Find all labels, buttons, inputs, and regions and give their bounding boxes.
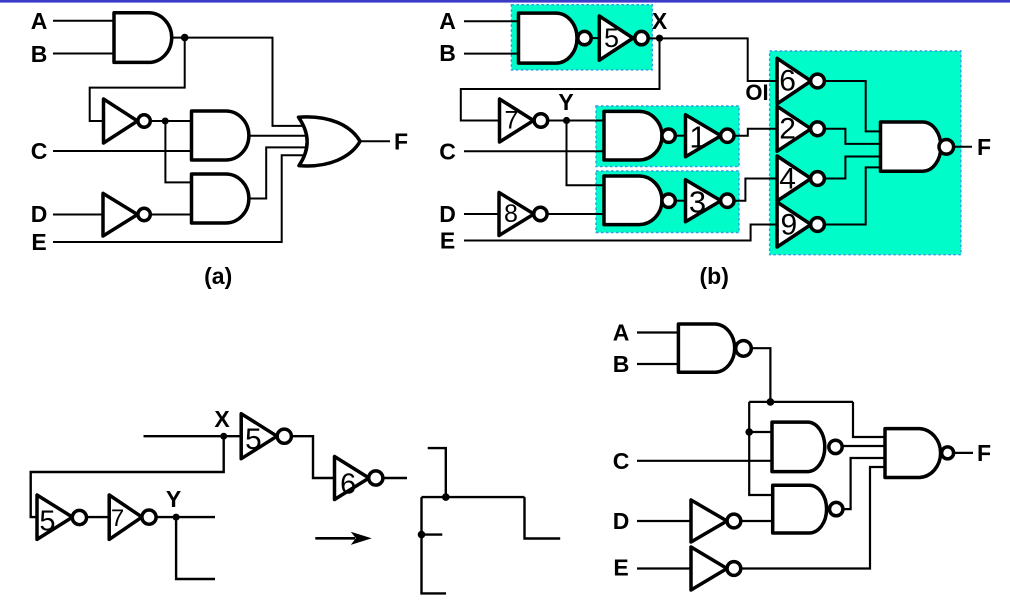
inverter 8 (b) [499, 193, 534, 236]
node X junction (b) [656, 35, 663, 42]
bubble inverter 5 [635, 31, 648, 44]
wire inverter IE output to NAND H4 [741, 467, 885, 569]
arrow transform [315, 533, 370, 544]
inverter 4 (b) [777, 156, 811, 201]
inverter ID (c) [691, 500, 727, 542]
wire inverter 6 output to NAND G10 [824, 81, 881, 131]
svg-text:6: 6 [340, 469, 356, 501]
bubble inverter 9 [811, 218, 825, 232]
svg-text:6: 6 [779, 65, 796, 98]
node junction left (mini) [418, 531, 426, 539]
svg-text:B: B [613, 351, 630, 377]
svg-text:A: A [613, 320, 630, 346]
wire X down to inverter 7 input [461, 38, 660, 120]
bubble inverter IE [727, 562, 741, 576]
bubble inverter 7b [142, 510, 156, 524]
wire input E (c) [637, 567, 691, 569]
svg-text:C: C [613, 448, 630, 474]
svg-text:8: 8 [504, 200, 518, 228]
svg-text:A: A [31, 8, 48, 34]
NAND gate H2 (c) [772, 422, 825, 472]
NAND gate H4 (c output) [885, 429, 941, 478]
svg-text:3: 3 [689, 185, 706, 220]
bubble inverter 3 [721, 194, 734, 207]
bubble inverter 4 [811, 172, 825, 186]
wire bus right vertical to NAND H4 [853, 402, 885, 437]
svg-text:4: 4 [779, 162, 796, 195]
wire X stub to inverter 5a [144, 435, 242, 437]
node inverter U2 output junction [162, 118, 169, 125]
svg-text:Y: Y [558, 89, 573, 115]
wire inverter 2 output to NAND G10 [824, 129, 881, 144]
wire inverter U2 output to AND2 [151, 120, 191, 122]
AND gate U1 (a) [114, 13, 172, 63]
inverter 7 (b) [500, 99, 534, 142]
OR gate U6 (a) [299, 117, 361, 166]
wire input A (a) [53, 20, 114, 22]
wire input D (c) [637, 520, 691, 522]
bubble inverter ID [727, 514, 741, 528]
inverter 5b [37, 495, 73, 539]
wire top stub [428, 448, 446, 497]
wire bus horizontal (c) [749, 401, 853, 403]
svg-text:(a): (a) [204, 263, 232, 289]
bubble inverter U5 [138, 208, 150, 220]
wire node1 down to inverter U2 input [90, 38, 185, 121]
svg-text:D: D [613, 508, 630, 534]
node bus junction left (c) [745, 428, 753, 436]
top border line [0, 0, 1010, 3]
wire OR output F (a) [360, 140, 390, 142]
wire inverter 4 output to NAND G10 [824, 157, 881, 179]
NAND gate G1 (b inputs Y,C) [604, 111, 662, 160]
inverter 1 (b) [686, 115, 721, 157]
wire middle stub [422, 533, 443, 535]
wire inverter 7b output to Y [156, 516, 215, 518]
NAND gate G10 (b output) [881, 122, 941, 171]
bubble inverter 2 [811, 122, 825, 136]
bubble NAND H3 [830, 502, 843, 515]
bubble NAND H1 [736, 341, 752, 357]
wire node2 down to AND3 input [165, 121, 191, 182]
wire inverter 1 output to inverter 2 input [734, 129, 777, 136]
bubble inverter 6b [369, 471, 383, 485]
wire input C (b) [464, 150, 604, 152]
wire bus left vertical to NAND H3 [749, 402, 773, 495]
inverter U2 (a) [104, 99, 138, 143]
svg-text:7: 7 [505, 107, 519, 135]
wire main horizontal [422, 496, 525, 498]
inverter 2 (b) [777, 106, 811, 151]
wire NAND G3 bubble to inverter 3 [675, 200, 686, 202]
wire inverter 8 output to NAND G3 [547, 213, 604, 215]
highlight box 3 (NAND+inv3) [596, 171, 739, 233]
node junction top (mini) [442, 493, 450, 501]
node Y junction (b) [563, 117, 570, 124]
wire NAND H2 output to NAND H4 [839, 445, 885, 447]
svg-text:F: F [977, 134, 991, 160]
svg-text:X: X [214, 406, 230, 432]
svg-text:B: B [439, 40, 456, 66]
svg-text:X: X [652, 8, 668, 34]
bubble inverter 7 [534, 114, 548, 128]
svg-text:7: 7 [111, 505, 124, 532]
inverter 9 (b) [777, 202, 811, 247]
wire inverter ID output to NAND H3 [741, 520, 773, 522]
wire input D (b) [464, 213, 499, 215]
wire inverter 9 output to NAND G10 [824, 167, 881, 224]
wire AND2 output to OR input 2 [249, 135, 310, 137]
highlight box 1 (NAND+inv5) [511, 5, 652, 70]
wire inverter 6b output stub [383, 477, 407, 479]
svg-text:9: 9 [780, 209, 797, 242]
svg-text:B: B [31, 41, 48, 67]
bubble inverter 5b [72, 510, 86, 524]
bubble NAND G3 [662, 194, 675, 207]
wire inverter 5a output to inverter 6b input [291, 436, 335, 478]
svg-text:5: 5 [245, 423, 262, 456]
wire NAND H4 output F (c) [954, 452, 973, 454]
inverter IE (c) [691, 547, 727, 590]
svg-text:E: E [440, 228, 455, 254]
svg-text:5: 5 [604, 23, 619, 53]
wire inverter U5 output to AND3 [151, 214, 192, 216]
wire input C (c) [637, 460, 772, 462]
wire X to inverter 6 input [646, 38, 777, 81]
wire X down to inverter 5b input [31, 436, 224, 517]
bubble NAND H4 [942, 447, 954, 459]
NAND gate H3 (c) [773, 485, 827, 533]
bubble NAND G1 [662, 129, 675, 142]
highlight box 4 (output group) [770, 51, 961, 255]
inverter U5 (a) [103, 193, 138, 236]
wire NAND H1 output down [751, 348, 771, 402]
AND gate U4 (a) [192, 174, 249, 223]
wire node to NAND H2 input [749, 431, 772, 433]
wire input E (b) to inverter 9 input [464, 225, 777, 241]
svg-text:F: F [394, 129, 408, 155]
wire NAND G1 bubble to inverter 1 [675, 135, 686, 137]
wire Y down stub [176, 517, 215, 579]
bubble inverter 8 [534, 207, 547, 220]
svg-text:C: C [439, 139, 456, 165]
wire left vertical [422, 497, 447, 593]
bubble inverter 5a [277, 429, 291, 443]
wire NAND G5in to inverter 5 [589, 37, 599, 39]
svg-text:A: A [439, 8, 456, 34]
wire inverter 5b output to inverter 7b [86, 516, 109, 518]
inverter 7b [109, 495, 142, 539]
bubble NAND G5in [578, 31, 591, 44]
svg-text:D: D [31, 201, 48, 227]
svg-text:E: E [31, 229, 46, 255]
wire AND1 output to OR input 1 [172, 38, 310, 126]
wire input B (a) [53, 53, 114, 55]
highlight box 2 (NAND+inv1) [596, 106, 739, 167]
bubble NAND H2 [829, 440, 842, 453]
node AND1 output junction [181, 34, 189, 42]
wire Y down to NAND G3 input [567, 121, 605, 186]
svg-text:OI: OI [745, 80, 768, 105]
wire input A (b) [464, 20, 519, 22]
wire inverter 7 output to Y [547, 120, 604, 122]
wire input B (b) [464, 53, 519, 55]
node Y junction (bottom left) [173, 514, 180, 521]
AND gate U3 (a) [192, 111, 249, 160]
node bus junction top (c) [767, 398, 775, 406]
bubble inverter 1 [721, 129, 734, 142]
node X junction (bottom left) [220, 433, 227, 440]
svg-text:C: C [31, 138, 48, 164]
bubble inverter 6 [811, 74, 825, 88]
wire input C (a) [53, 150, 192, 152]
wire input E (a) to OR input 4 [53, 155, 310, 242]
svg-text:E: E [613, 555, 628, 581]
wire right down stub [525, 497, 561, 538]
NAND gate G5in (b inputs A,B) [519, 13, 578, 63]
wire input D (a) [53, 214, 103, 216]
inverter 6 (b) [777, 58, 811, 104]
bubble inverter U2 [138, 115, 150, 127]
wire NAND G10 output F (b) [954, 146, 972, 148]
inverter 5a [241, 414, 277, 459]
wire AND3 output to OR input 3 [249, 147, 310, 198]
svg-text:5: 5 [39, 506, 55, 538]
svg-text:2: 2 [779, 113, 796, 146]
wire input A (c) [637, 331, 678, 333]
svg-text:1: 1 [689, 120, 706, 155]
bubble NAND G10 [939, 140, 954, 155]
wire NAND H3 output to NAND H4 [840, 458, 885, 509]
wire inverter 3 output to inverter 4 input [734, 179, 777, 201]
inverter 6b [335, 457, 370, 500]
svg-text:F: F [977, 440, 991, 466]
NAND gate G3 (b inputs Y,D') [604, 176, 662, 225]
svg-text:D: D [439, 201, 456, 227]
wire input B (c) [637, 363, 678, 365]
svg-text:(b): (b) [700, 263, 729, 289]
inverter 5 (b) [599, 16, 633, 60]
svg-text:Y: Y [166, 486, 181, 512]
inverter 3 (b) [686, 180, 721, 222]
NAND gate H1 (c inputs A,B) [678, 324, 734, 372]
